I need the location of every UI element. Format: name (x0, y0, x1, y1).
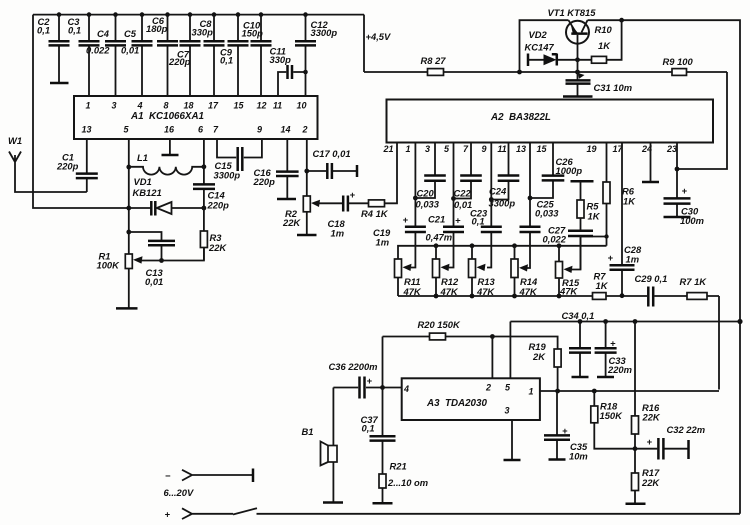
node bus R14 (512, 243, 517, 248)
svg-text:0.022: 0.022 (86, 45, 110, 56)
node bus C6 (165, 12, 170, 17)
wire pin2 stem A3 (491, 337, 493, 379)
svg-text:VT1 KT815: VT1 KT815 (548, 7, 597, 18)
svg-text:15: 15 (536, 144, 547, 154)
wire left vert to pin4 (382, 337, 384, 388)
svg-text:+: + (610, 338, 616, 349)
node pin5 C22 junction (451, 196, 456, 201)
svg-text:A3 TDA2030: A3 TDA2030 (426, 398, 487, 409)
pin numbers A1 top row (85, 101, 306, 111)
node C13 bottom (159, 258, 164, 263)
svg-text:0,022: 0,022 (543, 234, 567, 245)
svg-text:5: 5 (505, 383, 511, 393)
wire pin13 stem (526, 143, 531, 269)
transistor VT1 KT815 (548, 7, 597, 60)
wire pot top bus (398, 246, 607, 259)
resistor R6 1K (603, 182, 636, 207)
op-amp IC A2 BA3822L box (387, 100, 714, 143)
svg-text:R8 27: R8 27 (421, 55, 447, 66)
svg-text:22K: 22K (641, 477, 660, 488)
capacitor C18 (319, 189, 369, 239)
capacitor C34 (569, 322, 591, 378)
svg-text:C36 2200m: C36 2200m (329, 361, 378, 372)
svg-text:KB121: KB121 (133, 187, 162, 198)
potentiometer R12 47K (433, 246, 459, 297)
capacitor C10 (242, 15, 272, 96)
node bus C7 (188, 12, 193, 17)
node lineB C34 (578, 319, 583, 324)
node pin19 wiper branch (604, 234, 608, 238)
svg-text:L1: L1 (137, 152, 148, 163)
svg-text:+4,5V: +4,5V (366, 31, 392, 42)
node bus C9 (236, 12, 241, 17)
wire pin5 stem (128, 139, 130, 254)
wire pin5 stem A2 (449, 143, 454, 268)
capacitor C13 (129, 232, 175, 287)
svg-text:0,033: 0,033 (416, 199, 440, 210)
capacitor C29 (635, 273, 668, 307)
svg-text:+: + (682, 185, 688, 196)
op-amp IC A3 TDA2030 box (402, 378, 540, 420)
svg-text:150p: 150p (242, 28, 264, 39)
svg-text:R9 100: R9 100 (663, 56, 694, 67)
node pin2 C17 (304, 169, 309, 174)
svg-text:R4 1K: R4 1K (361, 208, 389, 219)
capacitor C2 (37, 15, 70, 83)
svg-text:1K: 1K (598, 40, 611, 51)
node bus C10 (259, 12, 264, 17)
node bus R12 (434, 243, 439, 248)
svg-text:330p: 330p (192, 27, 214, 38)
svg-text:C22: C22 (454, 188, 472, 199)
svg-text:8: 8 (163, 101, 168, 111)
svg-text:220m: 220m (607, 364, 632, 375)
svg-text:0,01: 0,01 (145, 276, 163, 287)
svg-text:21: 21 (382, 144, 393, 154)
svg-text:1000p: 1000p (556, 165, 583, 176)
node lineB C33 (603, 319, 608, 324)
wire top collector wire (588, 20, 741, 514)
svg-text:C29 0,1: C29 0,1 (635, 273, 668, 284)
svg-text:100m: 100m (680, 215, 704, 226)
svg-text:C20: C20 (417, 188, 435, 199)
wire line B C34 bus (510, 322, 740, 379)
antenna W1 (8, 135, 87, 192)
svg-text:+: + (608, 252, 614, 263)
node bus C12 (303, 12, 308, 17)
node zener base R10 (575, 57, 580, 62)
inductor L1 (129, 152, 204, 175)
capacitor C17 (307, 148, 357, 179)
capacitor C3 (68, 15, 100, 96)
svg-text:1K: 1K (588, 211, 601, 222)
capacitor C30 (664, 185, 704, 226)
node lineA pin2 (490, 334, 495, 339)
svg-text:C24: C24 (489, 186, 507, 197)
svg-text:23: 23 (666, 144, 677, 154)
svg-text:7: 7 (213, 125, 219, 135)
node bus C4 (113, 12, 118, 17)
capacitor C37 (361, 388, 396, 475)
connector minus input (164, 469, 254, 499)
wire pin17 stem (621, 143, 623, 296)
svg-text:22K: 22K (282, 217, 301, 228)
svg-text:3: 3 (425, 144, 430, 154)
wire pin4 input line (333, 387, 401, 389)
capacitor C16 (253, 139, 299, 199)
resistor R17 22K (626, 449, 661, 504)
svg-text:10m: 10m (569, 451, 588, 462)
node rail C31 (575, 70, 580, 75)
capacitor C21 (426, 214, 465, 243)
svg-text:17: 17 (208, 101, 219, 111)
wire R15 wiper branch (569, 237, 607, 270)
wire pin19 stem (606, 143, 608, 246)
svg-text:4: 4 (403, 384, 409, 394)
wire R9 corner to pin23 (677, 72, 727, 169)
wire pin2 stem (306, 139, 308, 196)
wire supply rail 4.5V (364, 71, 727, 73)
svg-text:+: + (165, 509, 171, 520)
svg-text:220p: 220p (207, 200, 230, 211)
capacitor C8 (192, 15, 225, 96)
svg-text:3300p: 3300p (214, 170, 241, 181)
capacitor C1 (56, 139, 98, 192)
resistor R18 150K (591, 391, 635, 449)
resistor R3 (200, 231, 227, 261)
wire pin1 stem (411, 143, 415, 268)
capacitor C4 (86, 15, 126, 96)
svg-text:3300p: 3300p (311, 27, 338, 38)
svg-text:2: 2 (485, 383, 491, 393)
terminal bar C27 chain top (571, 180, 594, 183)
svg-text:C34 0,1: C34 0,1 (562, 310, 595, 321)
capacitor C19 (373, 214, 426, 248)
svg-text:C32 22m: C32 22m (667, 424, 706, 435)
svg-text:3: 3 (111, 101, 116, 111)
node pin5 C13 (126, 230, 131, 235)
node pin6 VD1 (202, 206, 207, 211)
wire feedback riser right (718, 296, 720, 390)
connector plus input with switch (165, 508, 741, 519)
svg-text:VD1: VD1 (134, 176, 152, 187)
svg-text:+: + (455, 215, 461, 226)
svg-text:R7 1K: R7 1K (680, 276, 708, 287)
svg-text:18: 18 (183, 101, 193, 111)
node pin1 C20 junction (413, 196, 418, 201)
resistor R5 1K (577, 181, 601, 231)
pin numbers A3 (403, 383, 534, 416)
wire pot bottom rail (398, 295, 719, 297)
capacitor C31 (563, 60, 632, 97)
svg-text:2...10 om: 2...10 om (387, 477, 428, 488)
capacitor C9 (220, 15, 249, 96)
resistor R8 27 (421, 55, 447, 75)
svg-text:9: 9 (257, 125, 262, 135)
svg-text:1: 1 (85, 101, 90, 111)
resistor R7 1K second (680, 276, 708, 299)
node pin9 C24 junction (489, 197, 494, 202)
capacitor C25 (520, 199, 560, 233)
capacitor C28 (608, 244, 642, 270)
svg-text:+: + (562, 425, 568, 436)
speaker B1 (302, 388, 344, 503)
svg-text:22K: 22K (208, 242, 227, 253)
svg-text:3: 3 (504, 406, 509, 416)
resistor R10 1K (578, 20, 622, 63)
svg-text:1K: 1K (623, 196, 636, 207)
resistor R9 100 (663, 56, 694, 75)
svg-text:12: 12 (256, 101, 266, 111)
capacitor C6 (146, 15, 178, 96)
svg-text:R20 150K: R20 150K (418, 319, 461, 330)
resistor R16 22K (632, 322, 661, 449)
node rail R14 (512, 294, 517, 299)
svg-text:11: 11 (273, 101, 282, 111)
svg-text:1m: 1m (376, 237, 390, 248)
capacitor C24 (489, 143, 520, 209)
node rail R13 (470, 294, 475, 299)
node pin5 VD1 line (126, 206, 131, 211)
node C11 C12 junction (303, 70, 308, 75)
wire +4.5V stub down (363, 15, 365, 72)
wire line A R20 feedback (383, 337, 558, 350)
capacitor C35 (544, 391, 588, 462)
capacitor C32 (635, 424, 705, 460)
capacitor C7 (168, 15, 201, 96)
node bus R15 (557, 243, 562, 248)
svg-text:0,1: 0,1 (472, 216, 485, 227)
capacitor C11 (270, 46, 306, 96)
svg-text:15: 15 (233, 101, 244, 111)
svg-text:+: + (403, 214, 409, 225)
svg-text:47K: 47K (559, 286, 578, 297)
node top wire R10 (619, 18, 624, 23)
svg-text:+: + (647, 436, 653, 447)
capacitor C5 (121, 15, 153, 96)
wire rail to top wire riser (520, 20, 569, 72)
svg-text:VD2: VD2 (529, 29, 548, 40)
svg-text:10: 10 (296, 101, 306, 111)
node bus C8 (212, 12, 217, 17)
node bus C2 (57, 12, 62, 17)
svg-text:4: 4 (136, 101, 142, 111)
node pin1 R19 (555, 389, 560, 394)
node bus C5 (140, 12, 145, 17)
svg-text:13: 13 (81, 125, 91, 135)
svg-text:W1: W1 (8, 135, 22, 146)
wire R1 wiper line (141, 248, 204, 261)
ground pin3 A3 (504, 420, 521, 460)
svg-text:16: 16 (164, 125, 175, 135)
svg-text:150K: 150K (600, 410, 624, 421)
svg-text:0,033: 0,033 (535, 208, 559, 219)
wire pin6 stem (203, 139, 205, 231)
node lineB R16 (633, 319, 638, 324)
svg-text:+: + (350, 189, 356, 200)
resistor R20 150K (418, 319, 461, 340)
capacitor C27 (543, 225, 594, 270)
potentiometer R1 100K (97, 251, 143, 309)
svg-text:0,01: 0,01 (121, 45, 139, 56)
node pin5 L1 (126, 165, 131, 170)
svg-text:5: 5 (444, 144, 450, 154)
resistor R21 (373, 461, 429, 504)
svg-text:+: + (367, 375, 373, 386)
svg-text:14: 14 (280, 125, 290, 135)
wire pin1 output line (540, 390, 719, 392)
node pin6 L1 (202, 164, 207, 169)
svg-text:1K: 1K (596, 280, 609, 291)
wire left edge down to VD1 line (33, 15, 129, 208)
svg-text:5: 5 (123, 125, 129, 135)
capacitor C12 (295, 15, 337, 96)
node pin4 C37 (380, 385, 385, 390)
svg-text:7: 7 (463, 144, 469, 154)
ground pin16 bar (169, 139, 171, 155)
resistor R19 2K (529, 341, 562, 391)
svg-text:180p: 180p (146, 23, 168, 34)
wire top supply bus (33, 14, 364, 16)
svg-text:1: 1 (528, 387, 533, 397)
node pin1 R18 (592, 389, 597, 394)
node rail R15 (557, 294, 562, 299)
svg-text:1m: 1m (331, 228, 345, 239)
potentiometer R2 22K (282, 196, 320, 235)
capacitor C14 (193, 184, 229, 210)
wire pin23 stem (676, 143, 678, 218)
capacitor C23 (470, 208, 502, 233)
svg-text:C31 10m: C31 10m (594, 82, 633, 93)
svg-text:2: 2 (301, 125, 307, 135)
svg-text:6: 6 (198, 125, 204, 135)
svg-text:2K: 2K (532, 351, 546, 362)
svg-text:R10: R10 (595, 24, 613, 35)
svg-text:B1: B1 (302, 426, 314, 437)
capacitor C36 (329, 361, 378, 399)
node lineB right bus (737, 319, 742, 324)
resistor R7 1K first (593, 271, 609, 300)
svg-text:11: 11 (497, 144, 506, 154)
node rail C28 (620, 293, 625, 298)
svg-text:6...20V: 6...20V (164, 487, 194, 498)
potentiometer R11 47K (395, 259, 422, 297)
capacitor C20 (415, 143, 445, 210)
svg-text:1: 1 (405, 144, 410, 154)
svg-text:100K: 100K (97, 260, 121, 271)
svg-text:−: − (165, 470, 171, 481)
svg-text:A1 KC1066XA1: A1 KC1066XA1 (130, 111, 204, 122)
svg-text:C17 0,01: C17 0,01 (313, 148, 351, 159)
svg-text:220p: 220p (56, 161, 79, 172)
node rail R12 (434, 294, 439, 299)
svg-text:0,1: 0,1 (68, 25, 81, 36)
ground pin24 bar (642, 143, 659, 183)
svg-text:0,47m: 0,47m (426, 232, 453, 243)
svg-text:9: 9 (481, 144, 486, 154)
diode VD2 KC147 zener (525, 29, 578, 66)
node rail VD2 branch (517, 70, 522, 75)
node R16 R17 C32 (633, 446, 638, 451)
capacitor C26 (530, 143, 582, 199)
svg-text:C5: C5 (124, 28, 137, 39)
node bus C3 (87, 12, 92, 17)
node pin13 C26 junction (528, 196, 533, 201)
svg-text:19: 19 (586, 144, 596, 154)
capacitor C33 (595, 322, 632, 378)
potentiometer R15 47K (556, 246, 580, 297)
op-amp IC A1 KC1066XA1 box (74, 96, 318, 139)
svg-text:0,1: 0,1 (220, 55, 233, 66)
capacitor C15 (214, 139, 262, 181)
pin numbers A1 bottom row (81, 125, 307, 135)
potentiometer R14 47K (511, 246, 538, 297)
svg-text:C21: C21 (428, 214, 445, 225)
svg-text:3300p: 3300p (489, 198, 516, 209)
svg-text:330p: 330p (270, 54, 292, 65)
svg-text:22K: 22K (642, 412, 661, 423)
svg-text:13: 13 (516, 144, 526, 154)
svg-text:220p: 220p (253, 176, 276, 187)
node pin23 R9 return (675, 167, 680, 172)
svg-text:KC147: KC147 (525, 42, 555, 53)
diode VD1 KB121 varicap (129, 176, 204, 216)
svg-text:0,1: 0,1 (37, 25, 50, 36)
svg-text:C4: C4 (97, 28, 110, 39)
wire pin9 stem (487, 143, 491, 268)
potentiometer R13 47K (469, 246, 496, 297)
capacitor C22 (454, 143, 482, 211)
svg-text:A2 BA3822L: A2 BA3822L (490, 112, 551, 123)
pin numbers A2 bottom row (382, 144, 677, 154)
svg-text:1m: 1m (626, 254, 640, 265)
node bus R13 (470, 243, 475, 248)
resistor R4 (361, 143, 397, 220)
svg-text:220p: 220p (168, 56, 191, 67)
svg-text:R21: R21 (390, 461, 407, 472)
svg-text:0,1: 0,1 (362, 423, 375, 434)
